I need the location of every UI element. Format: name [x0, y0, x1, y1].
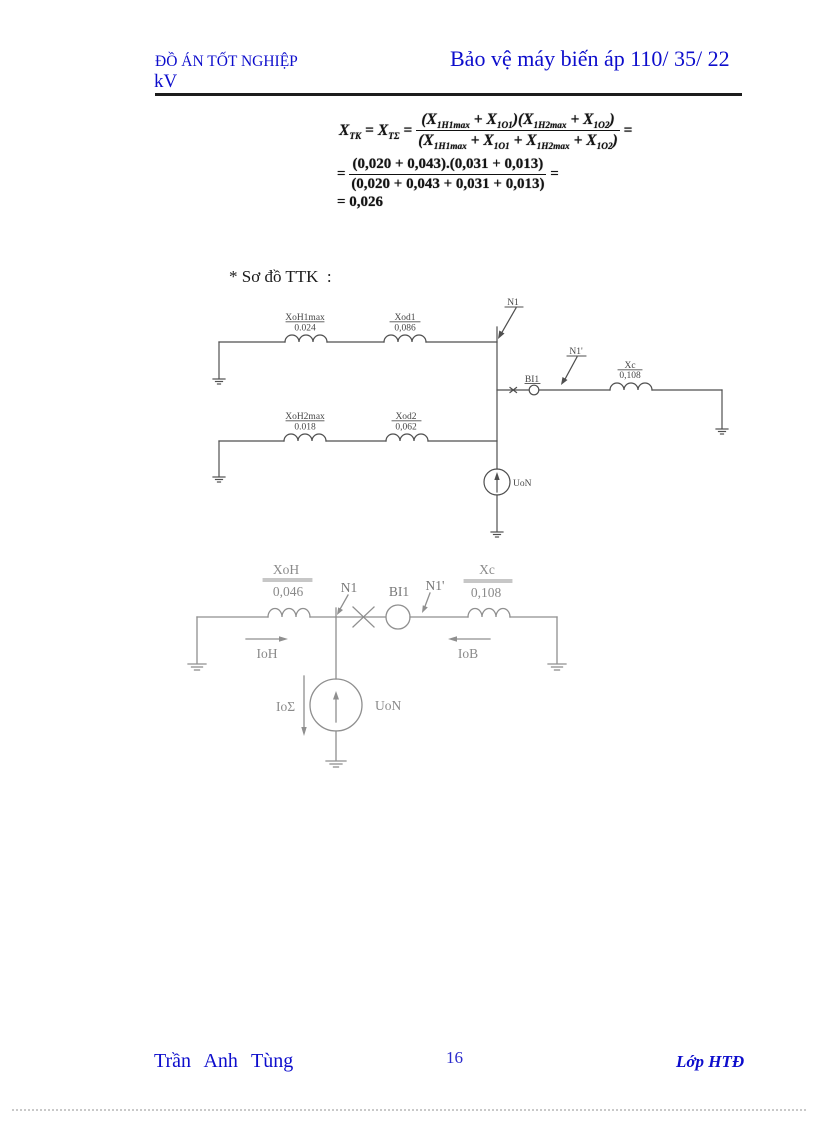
svg-text:0,046: 0,046	[273, 584, 304, 599]
svg-text:N1: N1	[341, 580, 358, 595]
wire: top-left drop to ground	[218, 342, 220, 378]
svg-text:UoN: UoN	[375, 698, 401, 713]
svg-text:IoB: IoB	[458, 646, 478, 661]
header left second line: kV	[154, 71, 177, 93]
node N1' label + arrow	[422, 578, 444, 613]
svg-text:0,108: 0,108	[619, 371, 641, 381]
current arrow IoH	[246, 636, 288, 661]
wire: top branch left segment	[219, 341, 285, 343]
svg-text:0.024: 0.024	[294, 324, 316, 334]
wire: left-mid segment	[310, 616, 386, 618]
inductor Xc 0,108	[464, 562, 512, 617]
footer: author	[154, 1050, 293, 1073]
wire: bottom-left drop to ground	[218, 441, 220, 476]
current arrow IoB	[448, 636, 490, 661]
ground (right)	[548, 664, 566, 670]
wire: middle branch right + drop	[652, 390, 722, 428]
wire: main vertical bus	[496, 327, 498, 469]
wire: mid segment to Xc	[410, 616, 468, 618]
inductor Xod2 0,062	[386, 412, 428, 441]
svg-text:IoH: IoH	[257, 646, 278, 661]
source UoN circle with arrow	[310, 679, 401, 731]
header left: ĐỒ ÁN TỐT NGHIỆP	[155, 53, 298, 71]
header right title	[450, 46, 730, 72]
source UoN circle with arrow	[484, 469, 532, 495]
wire: top branch right segment	[426, 341, 497, 343]
wire: below source to ground	[335, 731, 337, 760]
svg-text:Xc: Xc	[479, 562, 495, 577]
ground (top-left)	[213, 379, 225, 384]
svg-text:0,086: 0,086	[394, 324, 416, 334]
svg-text:IoΣ: IoΣ	[276, 699, 295, 714]
wire: bottom branch right segment	[428, 440, 497, 442]
footer: class	[676, 1052, 744, 1072]
svg-text:BI1: BI1	[389, 584, 409, 599]
wire: below source to ground	[496, 495, 498, 531]
node N1 label + arrow	[498, 298, 523, 339]
wire: bottom branch middle segment	[326, 440, 386, 442]
equation line 3	[337, 194, 383, 211]
ground (left)	[188, 664, 206, 670]
svg-text:N1': N1'	[426, 578, 445, 593]
junction tick above wire	[335, 608, 337, 617]
svg-text:XoH: XoH	[273, 562, 299, 577]
equation line 1	[339, 111, 633, 150]
wire: middle branch to Xc	[539, 389, 610, 391]
svg-text:0.018: 0.018	[294, 423, 316, 433]
inductor XoH2max 0.018	[284, 412, 326, 441]
svg-text:N1': N1'	[569, 347, 583, 357]
node N1 label + arrow	[337, 580, 357, 615]
CT BI1 circle + label	[525, 375, 540, 395]
svg-text:UoN: UoN	[513, 479, 532, 489]
footer dotted rule	[12, 1109, 806, 1111]
wire: right segment + drop	[510, 617, 557, 663]
inductor XoH 0,046	[263, 562, 312, 617]
header rule	[155, 93, 742, 96]
ground (below source)	[326, 761, 346, 767]
wire: bottom branch left segment	[219, 440, 284, 442]
inductor Xc 0,108	[610, 361, 652, 390]
wire: top branch middle segment	[327, 341, 384, 343]
wire: left drop to ground	[196, 617, 198, 663]
paragraph: So do TTK	[229, 267, 332, 287]
CT BI1 circle + label	[386, 584, 410, 629]
ground (middle-right)	[716, 429, 728, 434]
inductor Xod1 0,086	[384, 313, 426, 342]
current arrow IoΣ	[276, 676, 307, 736]
footer: page number	[446, 1048, 463, 1068]
ground (bottom-left)	[213, 477, 225, 482]
svg-text:0,062: 0,062	[395, 423, 417, 433]
svg-text:N1: N1	[507, 298, 519, 308]
equation line 2	[337, 156, 559, 193]
node N1' label + arrow	[561, 347, 586, 385]
wire: left segment	[197, 616, 268, 618]
svg-text:0,108: 0,108	[471, 585, 502, 600]
inductor XoH1max 0.024	[285, 313, 327, 342]
fault cross	[353, 607, 374, 627]
wire: middle branch from bus	[497, 389, 529, 391]
wire: junction down to source	[335, 617, 337, 679]
fault cross on middle branch	[510, 388, 517, 393]
ground (below source)	[491, 532, 503, 537]
